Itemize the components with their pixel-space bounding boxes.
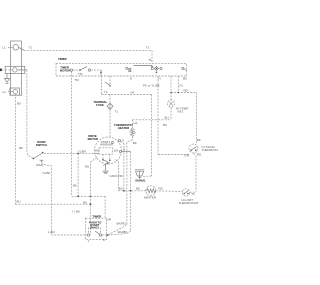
svg-text:BK: BK bbox=[136, 186, 140, 190]
timer contact H bbox=[126, 66, 153, 81]
wire junction to OR drop bbox=[72, 195, 112, 221]
svg-text:(60HZ): (60HZ) bbox=[90, 226, 99, 230]
wire junction down to bottom bus bbox=[77, 153, 79, 197]
wire selector BR drop bbox=[178, 76, 184, 93]
svg-text:BU: BU bbox=[163, 123, 167, 127]
svg-text:IND.: IND. bbox=[178, 110, 184, 114]
svg-text:L-BU: L-BU bbox=[48, 230, 55, 234]
svg-text:BU: BU bbox=[85, 164, 89, 168]
svg-text:MOTOR: MOTOR bbox=[88, 137, 98, 141]
svg-text:BU: BU bbox=[17, 102, 21, 106]
timer selector contacts right bbox=[151, 67, 162, 81]
svg-text:GROUND: GROUND bbox=[110, 174, 124, 178]
wire T1 drop into timer box bbox=[146, 46, 152, 64]
wire Y/BU label bbox=[72, 210, 81, 214]
wire L-BU bottom bbox=[48, 230, 87, 235]
svg-text:H: H bbox=[159, 77, 161, 81]
svg-text:H1: H1 bbox=[134, 121, 138, 125]
wire BU bottom horizontal to motor drop bbox=[15, 201, 90, 205]
svg-text:BK: BK bbox=[133, 141, 137, 145]
buzzer bbox=[135, 170, 146, 183]
horizontal wire to cycling thermostat (right) bbox=[171, 89, 197, 93]
svg-text:BU: BU bbox=[83, 201, 87, 205]
hi-limit thermostat bbox=[179, 189, 199, 205]
motor terminal 5 bbox=[118, 139, 124, 192]
buzzer signal feed bbox=[142, 175, 152, 177]
svg-text:BU: BU bbox=[119, 186, 123, 190]
svg-text:TM: TM bbox=[74, 78, 79, 82]
svg-text:FUSE: FUSE bbox=[96, 103, 104, 107]
wire down to cycling thermostat bbox=[197, 93, 201, 145]
terminal L1 bbox=[2, 45, 24, 51]
svg-text:T1: T1 bbox=[148, 58, 152, 62]
wire cycling thermostat to hi-limit bbox=[194, 152, 202, 191]
svg-text:BK: BK bbox=[73, 184, 77, 188]
long vertical B (WH/BK) bbox=[130, 141, 137, 231]
terminal block strip bbox=[11, 41, 22, 95]
wire N to door switch (vertical x=26.9) bbox=[17, 70, 33, 159]
svg-text:T1: T1 bbox=[191, 192, 195, 196]
bottom timer box bbox=[85, 215, 106, 240]
svg-text:HEATER: HEATER bbox=[144, 196, 157, 200]
svg-text:BK: BK bbox=[183, 77, 187, 81]
thermal fuse bbox=[94, 95, 119, 138]
timer motor block (top) bbox=[60, 66, 70, 73]
timer internal junction bbox=[91, 70, 102, 77]
wire WH/BK bbox=[107, 230, 131, 236]
wire door switch to motor (YL/BK) bbox=[44, 149, 95, 153]
ground bbox=[5, 74, 10, 84]
wire PK or YL/BK (light feed from box) bbox=[143, 76, 172, 100]
timer internal contacts left bbox=[70, 67, 90, 82]
contacts hanging below timer box bbox=[102, 76, 111, 95]
svg-text:L2: L2 bbox=[3, 90, 7, 94]
svg-text:YL/BK: YL/BK bbox=[42, 171, 51, 175]
bottom timer terminals bbox=[87, 227, 105, 243]
timer box (top) bbox=[56, 57, 187, 76]
svg-text:TM: TM bbox=[78, 72, 83, 76]
terminal L2 bbox=[3, 88, 20, 95]
svg-text:SIGNAL: SIGNAL bbox=[135, 179, 146, 183]
svg-text:T1: T1 bbox=[146, 46, 150, 50]
motor centrifugal switch + ground bbox=[102, 154, 123, 178]
svg-text:HF: HF bbox=[131, 91, 135, 95]
wire motor to bottom timer (left) bbox=[85, 158, 97, 236]
long vertical A (BK/RD) bbox=[127, 140, 133, 225]
wire BU from L2 down left side bbox=[15, 94, 21, 204]
terminal N box bbox=[0, 66, 25, 73]
svg-text:1M: 1M bbox=[95, 149, 100, 153]
heater bbox=[144, 186, 157, 200]
door switch bbox=[33, 140, 47, 167]
heater line bbox=[118, 186, 145, 190]
wire timer motor output down to bottom bus bbox=[72, 71, 78, 196]
svg-text:T1: T1 bbox=[115, 110, 119, 114]
svg-text:K1: K1 bbox=[180, 84, 184, 88]
cycling thermostat bbox=[189, 144, 222, 153]
wire T1 top bbox=[24, 45, 152, 50]
main horizontal wire below timer box (left) bbox=[102, 91, 152, 95]
svg-text:THERMOSTAT: THERMOSTAT bbox=[179, 201, 199, 205]
hi-temp indicator light bbox=[167, 100, 188, 114]
svg-text:SWITCH: SWITCH bbox=[36, 143, 47, 147]
svg-text:WH/BK: WH/BK bbox=[118, 230, 128, 234]
thermostat heater bbox=[114, 120, 135, 140]
wire motor switch to heater line bbox=[116, 160, 123, 191]
svg-text:BK: BK bbox=[19, 146, 23, 150]
motor terminal 4 bbox=[119, 148, 130, 153]
svg-text:BU: BU bbox=[17, 200, 21, 204]
svg-text:T1: T1 bbox=[104, 90, 108, 94]
svg-text:THERMOSTAT: THERMOSTAT bbox=[202, 148, 219, 152]
svg-text:BK/RD: BK/RD bbox=[117, 222, 127, 226]
wire BU light to cycling thermostat bbox=[133, 76, 190, 158]
svg-text:TIMER: TIMER bbox=[58, 57, 67, 61]
svg-text:BK: BK bbox=[197, 138, 201, 142]
signal feed vertical bbox=[151, 95, 153, 177]
wire door switch lower to bottom bus bbox=[42, 162, 52, 235]
svg-text:PK or YL/BK: PK or YL/BK bbox=[143, 83, 160, 87]
drive motor bbox=[88, 134, 122, 164]
svg-text:T1: T1 bbox=[29, 45, 33, 49]
bottom timer motor block bbox=[89, 221, 102, 230]
wire BK/RD bbox=[102, 222, 127, 235]
svg-text:L1: L1 bbox=[2, 46, 6, 50]
wire heater to hi-limit bbox=[156, 186, 183, 191]
svg-text:MOTOR: MOTOR bbox=[60, 68, 70, 72]
svg-text:H: H bbox=[130, 77, 132, 81]
svg-text:HEATER: HEATER bbox=[118, 126, 129, 130]
svg-text:YL/BK: YL/BK bbox=[78, 149, 87, 153]
svg-text:BU: BU bbox=[165, 116, 169, 120]
svg-text:Y / BU: Y / BU bbox=[72, 210, 81, 214]
contact near right edge of timer box bbox=[182, 68, 187, 81]
svg-text:2M: 2M bbox=[114, 149, 119, 153]
